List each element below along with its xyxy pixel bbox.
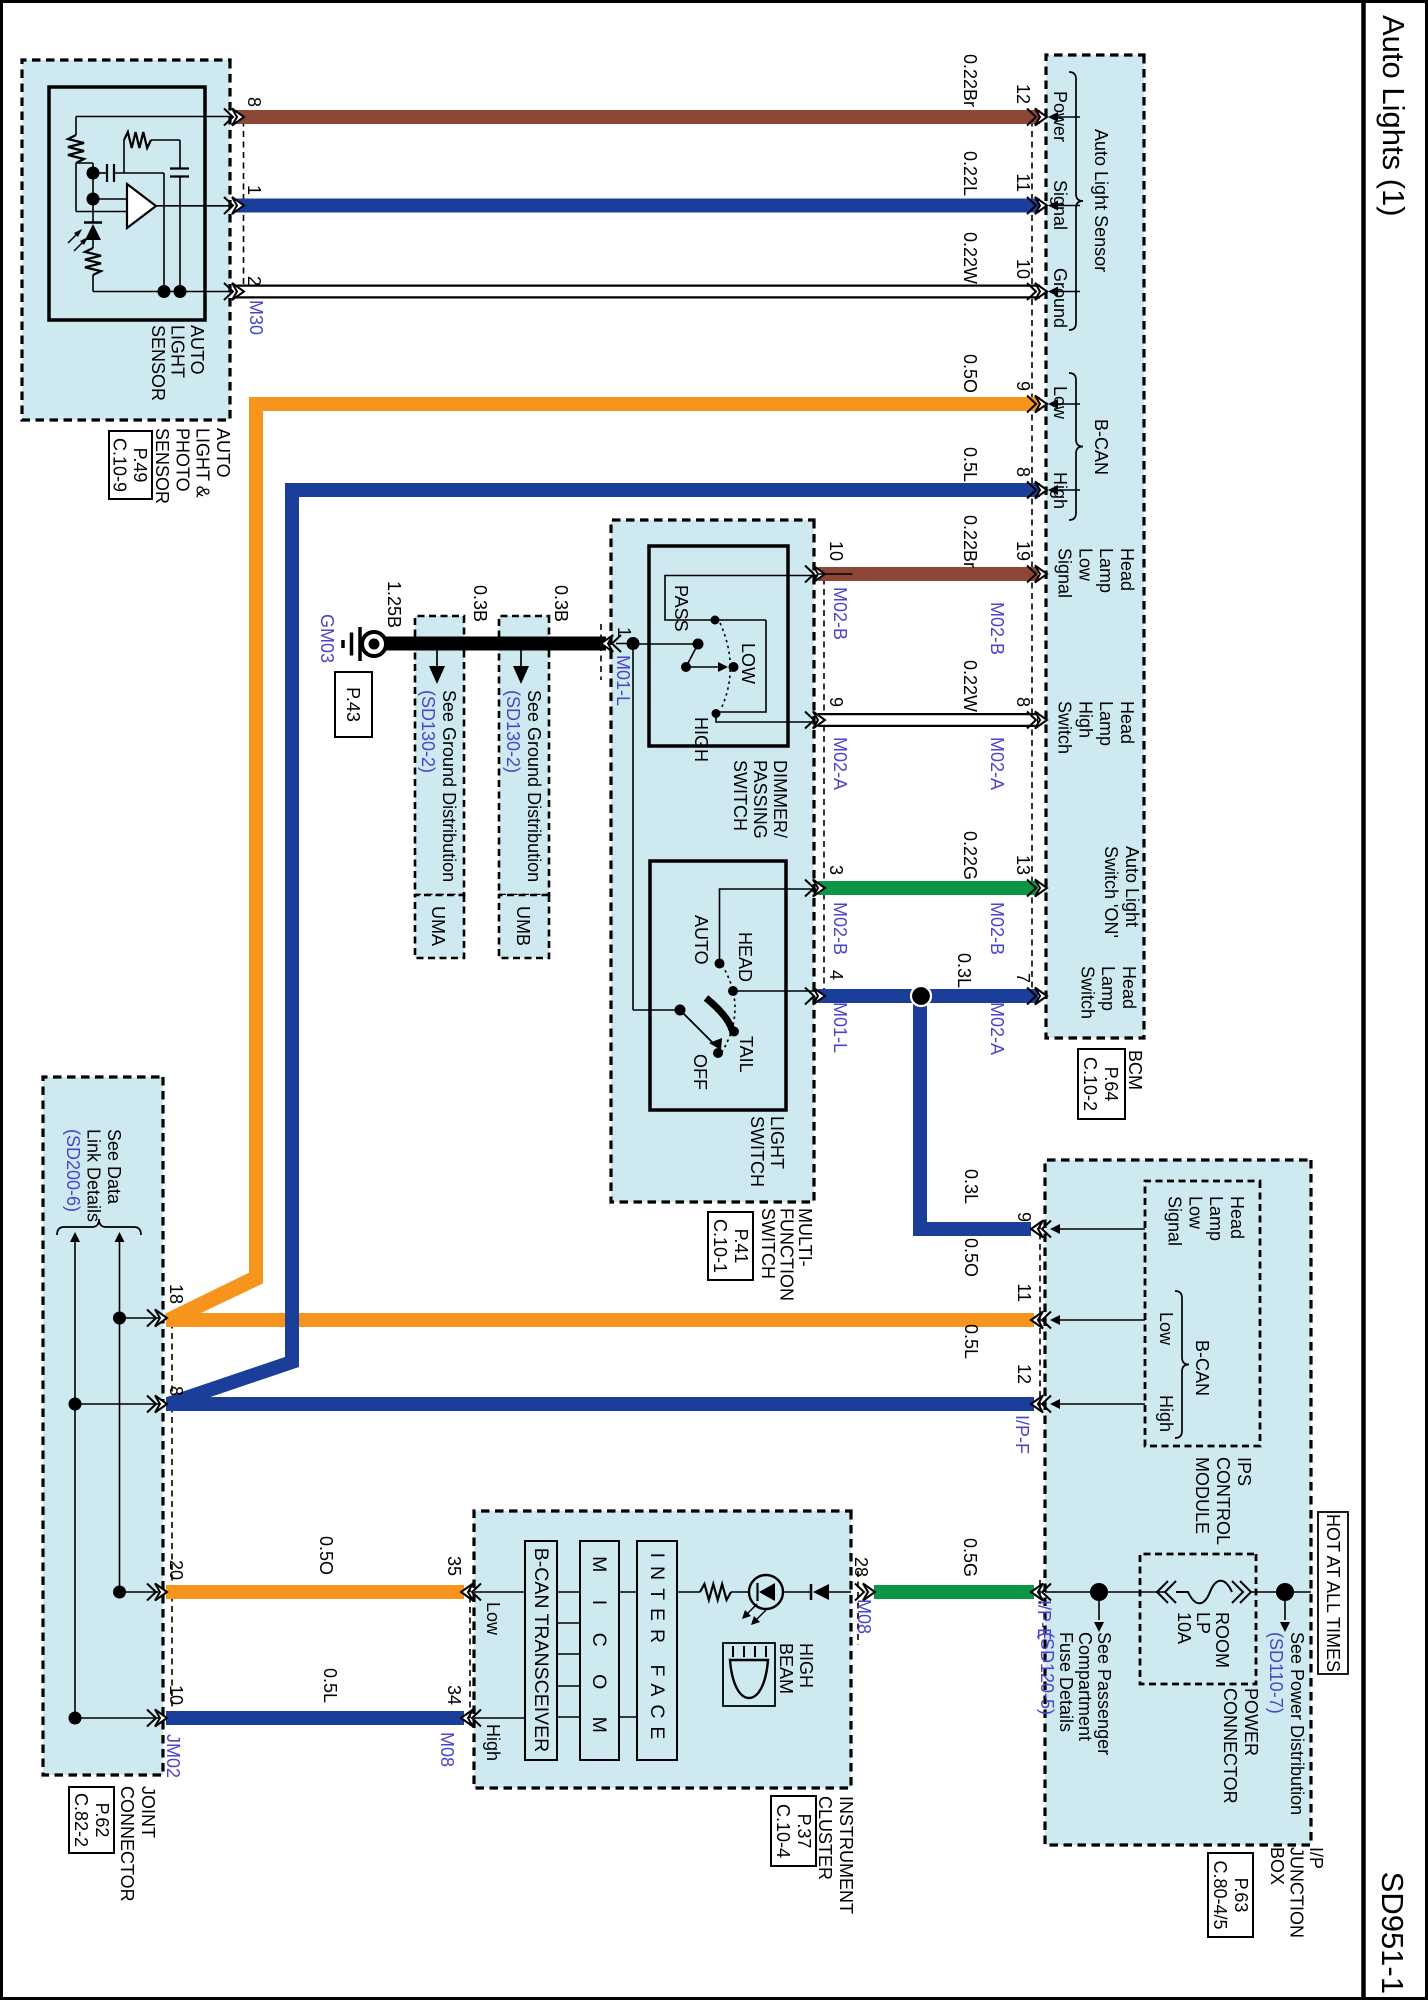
- svg-text:IPS: IPS: [1234, 1457, 1254, 1486]
- svg-text:12: 12: [1013, 84, 1033, 104]
- svg-text:1.25B: 1.25B: [384, 581, 404, 628]
- svg-text:M08: M08: [437, 1732, 457, 1767]
- svg-text:INSTRUMENT: INSTRUMENT: [836, 1796, 856, 1914]
- svg-text:AUTO: AUTO: [213, 428, 233, 478]
- svg-text:LP: LP: [1193, 1612, 1213, 1634]
- svg-text:Head: Head: [1117, 548, 1137, 591]
- svg-text:SWITCH: SWITCH: [730, 760, 750, 831]
- svg-text:28: 28: [851, 1557, 871, 1577]
- svg-text:P.63: P.63: [1231, 1878, 1251, 1913]
- svg-text:P.37: P.37: [794, 1814, 814, 1849]
- svg-text:0.5L: 0.5L: [320, 1668, 340, 1703]
- svg-text:0.3B: 0.3B: [551, 585, 571, 622]
- svg-text:0.5O: 0.5O: [961, 1238, 981, 1277]
- svg-text:Low: Low: [1050, 386, 1070, 420]
- svg-text:10A: 10A: [1174, 1612, 1194, 1644]
- svg-text:Switch 'ON': Switch 'ON': [1101, 846, 1121, 938]
- svg-text:CLUSTER: CLUSTER: [815, 1796, 835, 1880]
- svg-text:0.5G: 0.5G: [960, 1538, 980, 1577]
- svg-text:I/P: I/P: [1306, 1847, 1326, 1869]
- svg-text:0.5L: 0.5L: [960, 447, 980, 482]
- svg-text:7: 7: [1013, 973, 1033, 983]
- svg-text:HEAD: HEAD: [735, 932, 755, 982]
- svg-text:C.10-4: C.10-4: [773, 1804, 793, 1858]
- svg-text:AUTO: AUTO: [691, 915, 711, 965]
- svg-text:Power: Power: [1050, 91, 1070, 142]
- svg-text:POWER: POWER: [1241, 1688, 1261, 1756]
- svg-text:SENSOR: SENSOR: [152, 428, 172, 504]
- svg-text:See Data: See Data: [104, 1129, 124, 1205]
- svg-text:M08: M08: [854, 1599, 874, 1634]
- svg-text:18: 18: [166, 1284, 186, 1304]
- svg-text:9: 9: [1013, 381, 1033, 391]
- svg-text:LOW: LOW: [738, 643, 758, 684]
- svg-text:Auto Lights (1): Auto Lights (1): [1376, 15, 1411, 217]
- svg-text:UMA: UMA: [428, 906, 448, 946]
- svg-text:See Passenger: See Passenger: [1094, 1632, 1114, 1755]
- svg-text:0.22G: 0.22G: [960, 831, 980, 880]
- svg-text:Head: Head: [1117, 701, 1137, 744]
- svg-text:M01-L: M01-L: [830, 1002, 850, 1053]
- svg-text:M I C O M: M I C O M: [588, 1556, 610, 1744]
- svg-text:P.64: P.64: [1101, 1067, 1121, 1102]
- svg-text:HIGH: HIGH: [796, 1643, 816, 1688]
- svg-text:0.5O: 0.5O: [960, 354, 980, 393]
- svg-text:0.5O: 0.5O: [316, 1536, 336, 1575]
- svg-text:See Ground Distribution: See Ground Distribution: [439, 690, 459, 882]
- svg-text:High: High: [1156, 1395, 1176, 1432]
- svg-text:8: 8: [1013, 467, 1033, 477]
- svg-text:P.43: P.43: [343, 687, 363, 722]
- svg-text:BEAM: BEAM: [776, 1643, 796, 1694]
- svg-text:Auto Light Sensor: Auto Light Sensor: [1091, 129, 1111, 272]
- svg-text:BOX: BOX: [1267, 1847, 1287, 1885]
- svg-text:Lamp: Lamp: [1206, 1196, 1226, 1241]
- svg-text:11: 11: [1013, 173, 1033, 192]
- svg-text:(SD130-2): (SD130-2): [503, 690, 523, 773]
- svg-text:B-CAN TRANSCEIVER: B-CAN TRANSCEIVER: [530, 1548, 552, 1752]
- svg-text:PASSING: PASSING: [750, 760, 770, 839]
- svg-text:(SD130-2): (SD130-2): [418, 690, 438, 773]
- svg-text:0.22Br: 0.22Br: [960, 54, 980, 107]
- svg-text:BCM: BCM: [1125, 1050, 1145, 1090]
- svg-text:9: 9: [1014, 1212, 1034, 1222]
- svg-text:0.22W: 0.22W: [960, 232, 980, 284]
- svg-text:M01-L: M01-L: [613, 655, 633, 706]
- svg-text:CONNECTOR: CONNECTOR: [117, 1786, 137, 1902]
- svg-text:B-CAN: B-CAN: [1192, 1340, 1212, 1396]
- svg-text:LIGHT: LIGHT: [168, 325, 188, 378]
- svg-text:FUNCTION: FUNCTION: [777, 1208, 797, 1301]
- svg-text:CONNECTOR: CONNECTOR: [1220, 1688, 1240, 1804]
- svg-text:M02-A: M02-A: [987, 1002, 1007, 1055]
- svg-text:C.82-2: C.82-2: [71, 1793, 91, 1847]
- svg-text:ROOM: ROOM: [1212, 1612, 1232, 1668]
- svg-text:TAIL: TAIL: [736, 1036, 756, 1073]
- svg-text:0.5L: 0.5L: [961, 1324, 981, 1359]
- svg-text:M02-B: M02-B: [987, 602, 1007, 655]
- svg-text:M02-A: M02-A: [830, 737, 850, 790]
- svg-text:M02-B: M02-B: [830, 587, 850, 640]
- svg-text:B-CAN: B-CAN: [1091, 419, 1111, 475]
- svg-text:M02-A: M02-A: [987, 737, 1007, 790]
- svg-text:Auto Light: Auto Light: [1122, 846, 1142, 927]
- svg-text:19: 19: [1013, 541, 1033, 561]
- svg-text:0.22Br: 0.22Br: [960, 515, 980, 568]
- svg-text:JUNCTION: JUNCTION: [1287, 1847, 1307, 1938]
- svg-text:1: 1: [244, 185, 264, 195]
- svg-text:13: 13: [1013, 855, 1033, 875]
- svg-text:Low: Low: [1185, 1196, 1205, 1230]
- svg-text:C.10-1: C.10-1: [710, 1219, 730, 1273]
- svg-text:AUTO: AUTO: [187, 325, 207, 375]
- svg-text:0.3L: 0.3L: [961, 1169, 981, 1204]
- svg-text:JM02: JM02: [163, 1734, 183, 1778]
- svg-text:Ground: Ground: [1050, 268, 1070, 328]
- svg-text:12: 12: [1014, 1364, 1034, 1384]
- svg-text:C.10-9: C.10-9: [110, 438, 130, 492]
- svg-text:JOINT: JOINT: [138, 1786, 158, 1838]
- svg-text:MULTI-: MULTI-: [795, 1208, 815, 1267]
- svg-text:See Ground Distribution: See Ground Distribution: [524, 690, 544, 882]
- svg-text:C.80-4/5: C.80-4/5: [1210, 1860, 1230, 1929]
- svg-text:See Power Distribution: See Power Distribution: [1287, 1632, 1307, 1815]
- svg-text:P.62: P.62: [92, 1803, 112, 1838]
- svg-text:I/P-F: I/P-F: [1012, 1415, 1032, 1454]
- svg-text:9: 9: [826, 697, 846, 707]
- svg-text:PASS: PASS: [671, 585, 691, 632]
- svg-text:11: 11: [1014, 1283, 1034, 1302]
- svg-text:(SD200-6): (SD200-6): [63, 1129, 83, 1212]
- svg-text:Signal: Signal: [1050, 180, 1070, 230]
- svg-text:SWITCH: SWITCH: [747, 1116, 767, 1187]
- svg-text:Signal: Signal: [1165, 1196, 1185, 1246]
- svg-text:Fuse Details: Fuse Details: [1056, 1632, 1076, 1732]
- svg-text:Switch: Switch: [1077, 966, 1097, 1019]
- svg-text:35: 35: [444, 1556, 464, 1576]
- svg-text:Head: Head: [1119, 966, 1139, 1009]
- svg-text:I/P-E: I/P-E: [1034, 1600, 1054, 1640]
- svg-text:2: 2: [244, 276, 264, 286]
- svg-text:Low: Low: [483, 1602, 503, 1636]
- svg-text:(SD120-5): (SD120-5): [1037, 1632, 1057, 1715]
- svg-text:OFF: OFF: [690, 1054, 710, 1090]
- svg-text:SD951-1: SD951-1: [1375, 1872, 1410, 1994]
- svg-text:8: 8: [166, 1386, 186, 1396]
- svg-text:SWITCH: SWITCH: [758, 1208, 778, 1279]
- svg-text:(SD110-7): (SD110-7): [1266, 1632, 1286, 1714]
- svg-text:HIGH: HIGH: [691, 717, 711, 762]
- svg-text:High: High: [483, 1724, 503, 1761]
- svg-text:Link Details: Link Details: [84, 1129, 104, 1222]
- svg-text:0.22W: 0.22W: [960, 660, 980, 712]
- svg-text:20: 20: [166, 1560, 186, 1580]
- svg-text:SENSOR: SENSOR: [148, 325, 168, 401]
- svg-text:UMB: UMB: [513, 906, 533, 946]
- svg-text:LIGHT &: LIGHT &: [193, 428, 213, 498]
- svg-text:Low: Low: [1156, 1312, 1176, 1346]
- svg-text:34: 34: [444, 1685, 464, 1705]
- svg-text:Lamp: Lamp: [1098, 966, 1118, 1011]
- svg-text:High: High: [1075, 701, 1095, 738]
- svg-text:PHOTO: PHOTO: [172, 428, 192, 492]
- svg-text:M02-B: M02-B: [830, 902, 850, 955]
- svg-text:10: 10: [166, 1685, 186, 1705]
- svg-text:0.3L: 0.3L: [954, 953, 974, 988]
- svg-text:10: 10: [826, 541, 846, 561]
- svg-text:M30: M30: [246, 300, 266, 335]
- svg-text:Lamp: Lamp: [1096, 548, 1116, 593]
- svg-text:4: 4: [826, 970, 846, 980]
- svg-text:8: 8: [1013, 697, 1033, 707]
- svg-text:3: 3: [826, 865, 846, 875]
- svg-text:Compartment: Compartment: [1075, 1632, 1095, 1741]
- svg-text:0.3B: 0.3B: [470, 585, 490, 622]
- svg-text:0.22L: 0.22L: [960, 151, 980, 196]
- svg-text:C.10-2: C.10-2: [1080, 1057, 1100, 1111]
- svg-text:LIGHT: LIGHT: [767, 1116, 787, 1169]
- svg-text:M02-B: M02-B: [987, 902, 1007, 955]
- svg-text:GM03: GM03: [317, 614, 337, 663]
- svg-text:Low: Low: [1075, 548, 1095, 582]
- svg-text:Lamp: Lamp: [1096, 701, 1116, 746]
- svg-text:P.49: P.49: [130, 448, 150, 483]
- svg-text:HOT AT ALL TIMES: HOT AT ALL TIMES: [1323, 1514, 1343, 1672]
- svg-text:10: 10: [1013, 259, 1033, 279]
- svg-text:MODULE: MODULE: [1192, 1457, 1212, 1534]
- svg-text:INTER FACE: INTER FACE: [646, 1553, 668, 1748]
- svg-text:Signal: Signal: [1055, 548, 1075, 598]
- svg-text:Head: Head: [1227, 1196, 1247, 1239]
- svg-text:P.41: P.41: [731, 1229, 751, 1264]
- svg-text:8: 8: [244, 97, 264, 107]
- svg-text:DIMMER/: DIMMER/: [770, 760, 790, 838]
- svg-text:Switch: Switch: [1055, 701, 1075, 754]
- svg-text:1: 1: [614, 627, 634, 637]
- svg-text:High: High: [1050, 472, 1070, 509]
- svg-text:CONTROL: CONTROL: [1213, 1457, 1233, 1545]
